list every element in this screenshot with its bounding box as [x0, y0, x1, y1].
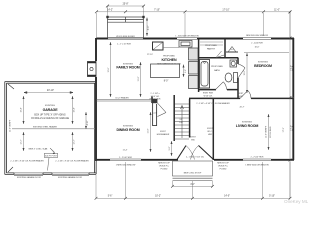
svg-text:NEW STOOP: NEW STOOP: [217, 163, 229, 165]
svg-text:5'-0": 5'-0": [169, 146, 171, 150]
svg-text:WOOD SIDE SLIDER: WOOD SIDE SLIDER: [116, 36, 135, 38]
svg-text:FLUSH HDR: FLUSH HDR: [150, 99, 161, 101]
svg-text:5'-6": 5'-6": [108, 196, 113, 198]
svg-text:1 NEW 3050 WINDOW: 1 NEW 3050 WINDOW: [116, 165, 136, 167]
svg-text:EXIST HDR: EXIST HDR: [203, 93, 214, 95]
svg-text:DINING ROOM: DINING ROOM: [116, 128, 139, 132]
svg-text:EXIST: EXIST: [190, 137, 196, 139]
svg-text:CLO: CLO: [230, 49, 235, 51]
svg-text:10'-6": 10'-6": [255, 47, 260, 49]
svg-text:17'-10": 17'-10": [222, 9, 229, 11]
svg-text:NEW 3050 D/H WINDOW: NEW 3050 D/H WINDOW: [246, 35, 268, 37]
svg-text:2 - 1 3/4" x 9 1/4" LVL FLUSH: 2 - 1 3/4" x 9 1/4" LVL FLUSH HEADER: [10, 160, 44, 163]
svg-text:11'-0": 11'-0": [138, 76, 140, 81]
svg-text:NEW CONC STOOP: NEW CONC STOOP: [184, 173, 202, 175]
svg-text:LIVING ROOM: LIVING ROOM: [236, 124, 259, 128]
svg-text:PANTRY: PANTRY: [207, 48, 216, 51]
svg-text:1 NEW 3050 D/H WINDOW: 1 NEW 3050 D/H WINDOW: [245, 165, 269, 167]
svg-text:2 - 1 3/4" x 9 1/4" LVL FLUSH: 2 - 1 3/4" x 9 1/4" LVL FLUSH HEADER: [196, 102, 230, 105]
svg-text:4'-0": 4'-0": [190, 184, 195, 186]
svg-text:10'-0": 10'-0": [244, 70, 246, 75]
svg-text:ON 8x8 P.C.: ON 8x8 P.C.: [159, 166, 170, 168]
svg-text:2 - 2"x10" HDR: 2 - 2"x10" HDR: [119, 157, 132, 159]
svg-text:14'-2": 14'-2": [107, 9, 113, 11]
svg-text:PROPOSED: PROPOSED: [205, 45, 217, 47]
svg-text:17'-3": 17'-3": [291, 125, 293, 131]
svg-text:PROPOSED: PROPOSED: [211, 66, 223, 68]
svg-text:2 - 2" x 10" HDR: 2 - 2" x 10" HDR: [117, 44, 131, 46]
svg-text:3'-0": 3'-0": [185, 69, 187, 73]
svg-text:CLO: CLO: [152, 113, 157, 115]
svg-text:2 - 2x10 HDR: 2 - 2x10 HDR: [251, 43, 263, 45]
svg-text:ON 8x8 P.C.: ON 8x8 P.C.: [218, 166, 229, 168]
svg-text:3'-0": 3'-0": [148, 26, 150, 31]
svg-text:EXISTING: EXISTING: [45, 105, 55, 107]
svg-text:2 - 1 3/4" x: 2 - 1 3/4" x: [150, 93, 159, 95]
svg-text:11'-4": 11'-4": [123, 150, 128, 152]
svg-text:25'-8": 25'-8": [123, 4, 129, 6]
svg-text:12'-6": 12'-6": [108, 67, 110, 72]
svg-text:HDR/HEADER: HDR/HEADER: [157, 133, 170, 136]
svg-text:W 16" LVL: W 16" LVL: [204, 95, 213, 97]
svg-text:W/D: W/D: [191, 140, 195, 142]
svg-text:EXIST: EXIST: [160, 131, 166, 133]
svg-text:8'-0": 8'-0": [164, 81, 169, 83]
svg-text:27'-10": 27'-10": [147, 54, 153, 56]
svg-text:11'-0": 11'-0": [148, 128, 150, 133]
svg-text:W.I.C.: W.I.C.: [207, 131, 213, 133]
svg-text:HDR: HDR: [238, 96, 243, 98]
svg-text:EXIST: EXIST: [207, 128, 213, 130]
svg-text:10'-2": 10'-2": [155, 196, 161, 198]
svg-text:7'-10": 7'-10": [154, 9, 160, 11]
svg-text:BATH: BATH: [214, 69, 220, 72]
svg-text:1 - 3050 D/H D/H WINDOW: 1 - 3050 D/H D/H WINDOW: [175, 36, 199, 38]
svg-text:20'-10": 20'-10": [47, 90, 54, 92]
svg-text:GARAGE: GARAGE: [43, 108, 59, 112]
svg-text:BOX UP TYPE 'X' OFF ADING: BOX UP TYPE 'X' OFF ADING: [34, 114, 66, 117]
svg-text:2 - 1 3/4" x 9 1/4" LVL: 2 - 1 3/4" x 9 1/4" LVL: [186, 157, 204, 159]
svg-text:10'-4": 10'-4": [74, 107, 76, 112]
svg-text:FLUSH HDR: FLUSH HDR: [203, 98, 214, 100]
svg-text:NEW 4" CONC. SLAB: NEW 4" CONC. SLAB: [29, 148, 48, 151]
svg-text:FOUND: FOUND: [220, 169, 227, 171]
svg-text:HDR: HDR: [208, 134, 213, 136]
svg-text:2 - 2"x10" HDR: 2 - 2"x10" HDR: [251, 157, 264, 159]
svg-text:ROOM DIMS: ROOM DIMS: [270, 126, 272, 138]
svg-text:12'-6" VERIFY: 12'-6" VERIFY: [266, 125, 268, 138]
svg-text:12'-2": 12'-2": [74, 139, 76, 144]
svg-text:FAMILY ROOM: FAMILY ROOM: [116, 66, 139, 70]
svg-text:2 - 1 3/4" x 9 1/4" LVL FLUSH: 2 - 1 3/4" x 9 1/4" LVL FLUSH HEADER: [55, 160, 89, 163]
svg-text:EXIST: EXIST: [238, 93, 244, 95]
svg-text:5'-10": 5'-10": [269, 196, 275, 198]
svg-text:4'-10": 4'-10": [87, 120, 89, 125]
svg-text:EXISTING GARAGE DOOR: EXISTING GARAGE DOOR: [17, 176, 41, 179]
svg-text:11'-0": 11'-0": [274, 9, 280, 11]
svg-text:ON WALLS & CEILING OF GARAGE: ON WALLS & CEILING OF GARAGE: [31, 117, 70, 120]
svg-text:KITCHEN: KITCHEN: [162, 58, 177, 62]
svg-text:EXISTING GARAGE DOOR: EXISTING GARAGE DOOR: [58, 176, 82, 179]
svg-text:16'-0" HEADER: 16'-0" HEADER: [115, 97, 129, 100]
svg-text:6x6 PT POST: 6x6 PT POST: [45, 156, 57, 158]
svg-text:20'-7": 20'-7": [240, 107, 245, 109]
svg-text:NEW STOOP: NEW STOOP: [158, 163, 170, 165]
svg-text:EXISTING STEEL HEADER: EXISTING STEEL HEADER: [33, 126, 57, 129]
svg-text:13'-2": 13'-2": [291, 65, 293, 71]
svg-text:BEDROOM: BEDROOM: [254, 64, 272, 68]
svg-text:9 1/4" LVL: 9 1/4" LVL: [151, 96, 160, 98]
svg-text:12'-2": 12'-2": [21, 139, 23, 144]
svg-text:10'-4": 10'-4": [21, 107, 23, 112]
svg-text:OneKey MLS: OneKey MLS: [284, 199, 308, 204]
svg-text:22'-6" VERIFY: 22'-6" VERIFY: [10, 119, 12, 132]
svg-text:14'-0": 14'-0": [224, 196, 230, 198]
svg-text:17'-3": 17'-3": [283, 127, 285, 132]
svg-text:NEW HARDWOOD FLOOR: NEW HARDWOOD FLOOR: [157, 62, 181, 65]
svg-text:FOUND: FOUND: [161, 169, 168, 171]
